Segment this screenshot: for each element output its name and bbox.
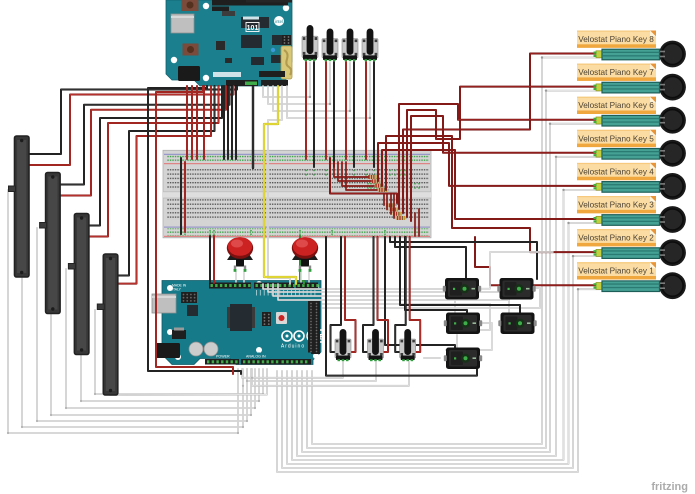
wire softpot2 sig bbox=[60, 86, 230, 185]
wire resistor lower feed bbox=[390, 194, 392, 214]
arduino mega board U2 bbox=[152, 281, 341, 365]
wire comp5 gnd loop black bbox=[326, 237, 477, 376]
potentiometer P2 bbox=[322, 29, 338, 62]
svg-text:Velostat Piano Key 3: Velostat Piano Key 3 bbox=[578, 201, 654, 210]
potentiometer P1 bbox=[302, 25, 318, 61]
wire resistor to rail bbox=[414, 213, 416, 236]
wire bb to mega red bbox=[213, 236, 215, 283]
wire pot1 gnd bbox=[313, 62, 315, 167]
wire pot6 vcc loop bbox=[378, 237, 389, 358]
arduino 101 board U1 bbox=[166, 0, 292, 86]
wire FSR key6 white loop bbox=[302, 124, 600, 452]
wire FSR key4 white loop bbox=[292, 190, 600, 460]
wire pot5 gnd loop bbox=[331, 237, 342, 358]
svg-text:101: 101 bbox=[247, 25, 259, 32]
wire pot7 wiper gray bbox=[252, 362, 409, 386]
wire softpot white loop 4 bbox=[51, 313, 251, 415]
wire pot6 gnd loop bbox=[363, 237, 374, 358]
velostat piano key 8 sensor FSR8 bbox=[577, 31, 686, 68]
resistor R5 bbox=[383, 203, 397, 207]
wire 101 tx yellow bbox=[264, 86, 296, 284]
wire pot2 gnd bbox=[333, 62, 335, 167]
wire FSR key4 red bbox=[378, 143, 598, 186]
wire pot2 vcc bbox=[325, 62, 327, 159]
wire pot5 vcc loop bbox=[345, 237, 356, 358]
wire softpot white loop 2 bbox=[22, 277, 243, 427]
potentiometer P4 bbox=[362, 29, 378, 62]
wire FSR key1 red bbox=[475, 237, 598, 285]
wire 101 gnd to mega bbox=[148, 86, 241, 374]
resistor R1 bbox=[365, 175, 379, 179]
wire 101 A0 to pot1 wiper bbox=[263, 63, 310, 97]
wire mega to comp1 gray bbox=[263, 279, 453, 289]
svg-text:ANALOG IN: ANALOG IN bbox=[246, 355, 266, 359]
wire pot4 gnd bbox=[373, 62, 375, 167]
wire mega to comp2 gray bbox=[268, 279, 506, 292]
softpot SP2 bbox=[40, 173, 61, 314]
velostat piano key 5 sensor FSR5 bbox=[577, 130, 686, 167]
wire resistor lower feed bbox=[386, 194, 388, 210]
wire softpot white loop 1 bbox=[8, 190, 238, 433]
wire pot3 vcc bbox=[345, 62, 347, 159]
svg-text:intel: intel bbox=[275, 19, 283, 24]
wire FSR key1 white loop bbox=[277, 289, 600, 472]
wire softpot3 sig bbox=[89, 86, 222, 226]
velostat piano key 2 sensor FSR2 bbox=[577, 229, 686, 266]
wire comp3 right gray bbox=[322, 304, 490, 330]
wire 101 gnd thick bbox=[252, 86, 254, 168]
potentiometer P5 bbox=[335, 329, 351, 361]
svg-text:fritzing: fritzing bbox=[651, 481, 688, 493]
velostat piano key 4 sensor FSR4 bbox=[577, 163, 686, 200]
wire comp3-comp5 gray bbox=[446, 323, 492, 350]
wire comp1 right gray bbox=[481, 252, 553, 289]
pushbutton S2 bbox=[292, 237, 318, 272]
wire softpot4 sig bbox=[118, 86, 215, 276]
svg-text:Velostat Piano Key 5: Velostat Piano Key 5 bbox=[578, 134, 654, 143]
wire btn2 leg b bbox=[308, 272, 310, 282]
wire softpot3 vcc bbox=[89, 86, 219, 237]
wire green bb to mega bbox=[300, 236, 304, 284]
wire FSR key8 red bbox=[403, 54, 598, 214]
wire 101 to bb black bbox=[227, 86, 229, 159]
wire 101 to bb red bbox=[203, 86, 205, 159]
wire softpot white loop 3 bbox=[37, 228, 247, 421]
wire btn1 leg a bbox=[235, 272, 237, 282]
velostat piano key 6 sensor FSR6 bbox=[577, 97, 686, 134]
wire bb to mega black bbox=[209, 236, 211, 283]
svg-text:Velostat Piano Key 1: Velostat Piano Key 1 bbox=[578, 267, 654, 276]
wire FSR key7 white loop bbox=[307, 91, 600, 448]
wire comp3 black bbox=[405, 237, 467, 313]
wire resistor feed bbox=[342, 162, 374, 186]
module M1 bbox=[443, 278, 481, 300]
wire 101 to bb red bbox=[186, 86, 188, 159]
wire resistor feed bbox=[334, 162, 368, 177]
wire FSR key5 red bbox=[411, 116, 598, 221]
softpot SP3 bbox=[68, 214, 89, 355]
wire resistor feed bbox=[346, 162, 377, 190]
wire 101 to bb black bbox=[223, 86, 225, 159]
wire comp5 black bbox=[385, 237, 455, 348]
wire resistor lower feed bbox=[393, 194, 395, 218]
svg-text:Velostat Piano Key 7: Velostat Piano Key 7 bbox=[578, 68, 654, 77]
module M2 bbox=[497, 278, 535, 300]
wire bb channel red bbox=[330, 158, 397, 203]
wire bb rail link red bbox=[184, 162, 186, 232]
wire 101 5v to mega bbox=[156, 86, 233, 374]
breadboard bbox=[163, 150, 431, 238]
wire pot3 gnd bbox=[353, 62, 355, 167]
potentiometer P7 bbox=[400, 329, 416, 361]
resistor R3 bbox=[372, 184, 386, 188]
wire mega to comp3 gray bbox=[273, 284, 455, 313]
wire softpot1 sig bbox=[29, 86, 237, 154]
wire resistor feed bbox=[338, 162, 371, 181]
wire 101 to mega gray bbox=[268, 86, 290, 284]
module M4 bbox=[498, 313, 536, 335]
wire bb rail link black bbox=[180, 158, 182, 234]
module M5 bbox=[444, 348, 482, 370]
wire 101 to bb black bbox=[235, 86, 237, 159]
wire pot7 gnd loop bbox=[395, 237, 406, 358]
svg-text:POWER: POWER bbox=[216, 355, 230, 359]
wire comp5 feed gray bbox=[456, 335, 458, 347]
wire FSR key3 white loop bbox=[287, 223, 600, 464]
resistor R4 bbox=[376, 188, 390, 192]
wire softpot2 vcc bbox=[60, 86, 226, 196]
wire pot4 vcc bbox=[365, 62, 367, 159]
svg-text:ITALY: ITALY bbox=[172, 288, 182, 292]
wire comp5 left gray bbox=[424, 357, 440, 359]
wire comp4 black bbox=[400, 237, 520, 313]
wire resistor lower feed bbox=[383, 194, 385, 205]
svg-text:Arduino: Arduino bbox=[281, 344, 305, 350]
wire comp1 black bbox=[395, 237, 466, 279]
module M3 bbox=[444, 313, 482, 335]
svg-text:Velostat Piano Key 6: Velostat Piano Key 6 bbox=[578, 101, 654, 110]
resistor R2 bbox=[369, 179, 383, 183]
wire FSR key7 red bbox=[407, 87, 598, 217]
svg-text:Velostat Piano Key 8: Velostat Piano Key 8 bbox=[578, 35, 654, 44]
wire softpot1 vcc bbox=[29, 86, 234, 165]
wire 101 to bb red bbox=[196, 86, 198, 159]
wire comp2 right gray bbox=[322, 288, 540, 308]
softpot SP1 bbox=[9, 136, 30, 277]
wire FSR key6 red bbox=[399, 104, 598, 209]
resistor R8 bbox=[394, 216, 408, 220]
potentiometer P6 bbox=[368, 329, 384, 361]
wire softpot white loop 5 bbox=[66, 269, 255, 408]
resistor R6 bbox=[387, 208, 401, 212]
wire FSR key2 red bbox=[386, 136, 598, 252]
wire 101 to bb black bbox=[231, 86, 233, 159]
wire mega to comp4 gray bbox=[278, 284, 509, 313]
softpot SP4 bbox=[97, 254, 118, 395]
wire FSR key8 white loop bbox=[312, 58, 600, 445]
wire 101 A2 to pot3 wiper bbox=[273, 63, 350, 111]
wire pot5 wiper gray bbox=[242, 362, 343, 378]
wire FSR key2 white loop bbox=[282, 256, 600, 468]
wire softpot4 vcc bbox=[118, 86, 211, 284]
velostat piano key 3 sensor FSR3 bbox=[577, 196, 686, 233]
wire resistor to rail bbox=[418, 209, 420, 236]
wire FSR key5 white loop bbox=[297, 157, 600, 456]
breadboard green contacts bbox=[180, 170, 419, 235]
wire FSR key3 red bbox=[382, 150, 598, 219]
resistor R7 bbox=[390, 212, 404, 216]
potentiometer P3 bbox=[342, 29, 358, 62]
wire softpot4 bottom bbox=[110, 369, 267, 395]
wire pot1 vcc bbox=[305, 62, 307, 159]
velostat piano key 1 sensor FSR1 bbox=[577, 262, 686, 299]
wire comp2 black bbox=[390, 237, 537, 279]
wire 101 A1 to pot2 wiper bbox=[268, 63, 330, 104]
velostat piano key 7 sensor FSR7 bbox=[577, 64, 686, 101]
svg-text:Velostat Piano Key 2: Velostat Piano Key 2 bbox=[578, 234, 654, 243]
wire pot7 vcc loop bbox=[410, 237, 421, 358]
wire btn2 leg a bbox=[300, 272, 302, 282]
wire pot6 wiper gray bbox=[247, 362, 376, 381]
svg-text:Velostat Piano Key 4: Velostat Piano Key 4 bbox=[578, 167, 654, 176]
wire btn1 leg b bbox=[243, 272, 245, 282]
pushbutton S1 bbox=[227, 237, 253, 272]
wire softpot white loop 6 bbox=[81, 355, 259, 401]
wire softpot white loop 7 bbox=[95, 310, 263, 394]
wire 101 to bb red bbox=[191, 86, 193, 159]
wire 101 A3 to pot4 wiper bbox=[287, 63, 370, 118]
